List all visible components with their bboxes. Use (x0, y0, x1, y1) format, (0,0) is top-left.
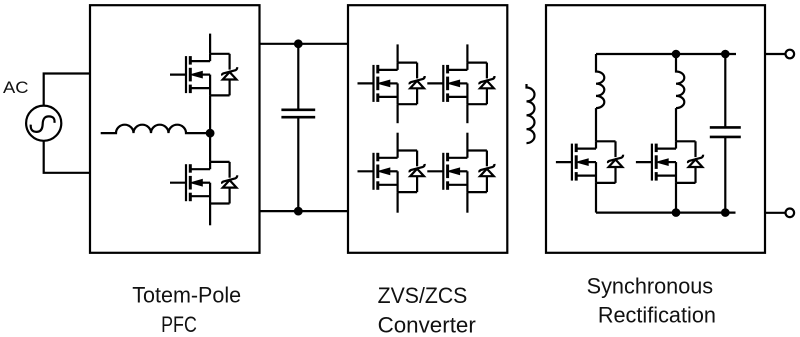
svg-text:Synchronous: Synchronous (587, 273, 714, 298)
svg-text:PFC: PFC (161, 312, 197, 337)
svg-text:AC: AC (3, 78, 29, 97)
svg-text:Totem-Pole: Totem-Pole (132, 283, 241, 308)
svg-text:ZVS/ZCS: ZVS/ZCS (378, 283, 468, 308)
svg-text:Rectification: Rectification (598, 303, 716, 328)
svg-text:Converter: Converter (378, 313, 476, 337)
